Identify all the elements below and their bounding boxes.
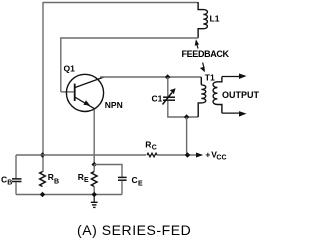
wire C1 bottom lead to tank bottom — [168, 101, 198, 117]
svg-text:C: C — [152, 145, 157, 152]
wire CB bottom lead — [15, 182, 17, 195]
wire RE top lead — [93, 165, 95, 172]
capacitor CE — [118, 177, 127, 180]
wire RE bottom lead — [93, 187, 95, 195]
arrow feedback-to-L1 — [195, 39, 199, 48]
svg-text:CC: CC — [216, 155, 226, 162]
arrow VCC — [196, 153, 203, 158]
wire output top with arrow — [222, 74, 247, 80]
svg-text:(A) SERIES-FED: (A) SERIES-FED — [77, 222, 191, 238]
wire emitter lead down — [93, 109, 95, 164]
transformer T1 secondary winding — [213, 77, 222, 114]
transistor Q1 — [66, 74, 104, 111]
svg-text:NPN: NPN — [105, 100, 123, 110]
svg-text:Q1: Q1 — [64, 64, 76, 74]
wire base lead — [61, 91, 74, 93]
svg-text:E: E — [84, 177, 89, 184]
node junction RE bottom / ground — [92, 192, 97, 197]
svg-text:C: C — [132, 175, 138, 185]
node junction RB bottom rail — [40, 192, 45, 197]
resistor RC — [147, 153, 157, 157]
svg-text:OUTPUT: OUTPUT — [222, 90, 260, 100]
wire collector to tank — [100, 76, 201, 78]
node junction tank bottom / VCC feed — [184, 114, 189, 119]
svg-text:B: B — [54, 178, 59, 185]
ground — [91, 195, 98, 208]
svg-text:T1: T1 — [205, 73, 215, 83]
wire feedback from L1 bottom to base — [61, 38, 198, 92]
capacitor C1 (variable) — [163, 88, 176, 104]
node junction left rail / VCC line — [40, 152, 45, 157]
inductor L1 — [198, 2, 207, 38]
wire bottom rail — [16, 194, 122, 196]
svg-text:E: E — [138, 180, 143, 187]
svg-text:C: C — [1, 174, 7, 184]
resistor RE — [91, 172, 97, 187]
wire tank bottom to VCC line — [186, 117, 188, 155]
wire left rail — [42, 2, 44, 172]
wire output bottom with arrow — [222, 111, 247, 117]
wire C1 top lead — [167, 77, 169, 97]
wire CE bottom lead — [121, 181, 123, 195]
wire RC to VCC arrow — [157, 154, 197, 156]
svg-text:R: R — [145, 140, 151, 150]
svg-text:FEEDBACK: FEEDBACK — [182, 49, 230, 59]
svg-text:C1: C1 — [152, 93, 163, 103]
node junction collector/C1 — [165, 74, 170, 79]
arrow feedback-to-T1 — [200, 63, 205, 73]
wire CB branch — [15, 155, 17, 179]
svg-text:+: + — [205, 150, 210, 160]
capacitor CB — [12, 179, 22, 182]
resistor RB — [40, 172, 46, 187]
wire CE branch top — [94, 165, 122, 178]
svg-text:B: B — [7, 180, 12, 187]
svg-text:L1: L1 — [210, 14, 220, 24]
node junction emitter / RE,CE — [92, 162, 97, 167]
wire VCC line — [16, 154, 146, 156]
transformer T1 primary winding — [198, 77, 206, 117]
node junction VCC / tank feed — [185, 152, 190, 157]
wire top from left rail to L1 — [43, 2, 198, 4]
